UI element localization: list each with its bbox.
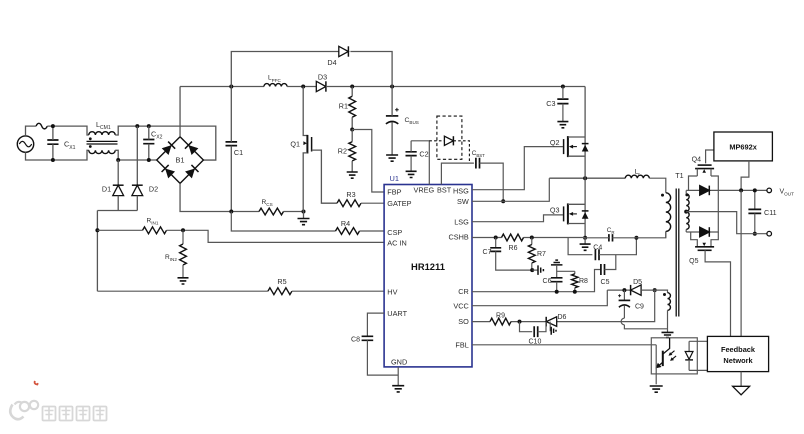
label C10: [529, 338, 542, 345]
svg-text:R8: R8: [579, 278, 588, 285]
label Q5: [689, 258, 698, 265]
node Q1 drain tap: [301, 85, 305, 89]
wire SW rail: [549, 177, 625, 179]
wire secondary bottom line: [686, 190, 718, 232]
wire secondary bottom lead: [685, 229, 687, 232]
signal ground triangle: [733, 386, 750, 395]
svg-text:Network: Network: [723, 356, 753, 365]
label RIN2: [165, 254, 177, 262]
capacitor C7: [490, 238, 532, 271]
node C11 bottom: [753, 232, 757, 236]
choke core: [87, 141, 118, 144]
svg-text:FBP: FBP: [387, 188, 401, 197]
svg-text:HV: HV: [387, 288, 397, 297]
label C8: [351, 337, 360, 344]
svg-text:LSG: LSG: [454, 217, 469, 226]
label R9: [496, 312, 505, 319]
capacitor C8: [362, 336, 374, 340]
wire led to feedback box: [689, 341, 707, 370]
diode D4: [339, 46, 349, 56]
label C6: [543, 278, 552, 285]
optocoupler box: [651, 338, 697, 374]
label C3: [546, 99, 555, 108]
svg-text:D6: D6: [558, 314, 567, 321]
capacitor C5: [601, 255, 616, 275]
sideways ground at D6: [550, 322, 556, 335]
node R1 R2 junction: [350, 128, 354, 132]
node Q3 source: [583, 236, 587, 240]
wire bridge bottom to return rail: [180, 183, 259, 211]
inverted ground above C6: [551, 260, 563, 265]
transistor Q4: [689, 150, 719, 190]
inductor LPFC: [264, 84, 287, 87]
resistor RIN2: [180, 230, 187, 277]
label Cx2: [151, 129, 163, 140]
node cx1 bottom: [51, 158, 55, 162]
node R7 bottom: [530, 268, 534, 272]
diode D1: [113, 160, 124, 211]
label Q4: [692, 157, 701, 164]
label R3: [346, 190, 355, 199]
capacitor CX1: [47, 126, 58, 160]
capacitor C10: [520, 322, 547, 338]
wire LSG to Q3 gate: [472, 215, 563, 222]
svg-text:R4: R4: [341, 219, 350, 228]
wire fuse to choke top: [47, 126, 89, 135]
node C11 top: [753, 188, 757, 192]
transformer T1 secondary bottom winding: [686, 212, 689, 230]
optocoupler led: [685, 341, 693, 370]
svg-text:FBL: FBL: [455, 341, 468, 350]
wire BST riser: [441, 163, 474, 184]
svg-text:D3: D3: [318, 73, 327, 82]
svg-text:R2: R2: [338, 146, 347, 155]
resistor RIN1: [97, 227, 384, 243]
mpm MP692x box: [714, 132, 773, 161]
wire CR node to transformer primary: [636, 231, 665, 237]
svg-text:GATEP: GATEP: [387, 199, 411, 208]
ground at Q1 source: [298, 212, 310, 225]
wire C6 to R8 top: [557, 270, 575, 272]
wire ac source top to fuse: [26, 126, 37, 136]
node center tap: [684, 210, 688, 214]
capacitor C2: [406, 141, 417, 171]
transistor Q3: [564, 203, 589, 224]
node C9 top: [622, 288, 626, 292]
node cx1 top: [51, 124, 55, 128]
wire C8 to GND pin: [367, 340, 398, 375]
svg-text:R5: R5: [277, 277, 286, 286]
wire ac source bottom: [26, 150, 89, 160]
label CBST: [472, 150, 485, 158]
wire bridge top to PFC rail: [179, 87, 181, 137]
label D6: [558, 314, 567, 321]
svg-text:BST: BST: [437, 186, 452, 195]
svg-text:D1: D1: [102, 185, 111, 194]
terminal VOUT positive: [767, 188, 772, 193]
wire D4 branch: [231, 52, 392, 87]
bootstrap diode (optional): [444, 136, 453, 145]
pin label GND: [391, 357, 407, 366]
svg-text:C7: C7: [483, 249, 492, 256]
svg-text:R7: R7: [537, 251, 546, 258]
wire Lr to primary: [649, 178, 666, 193]
dashed lead left of bootstrap diode: [429, 140, 444, 142]
svg-text:C2: C2: [419, 150, 428, 159]
label R5: [277, 277, 286, 286]
svg-text:R9: R9: [496, 312, 505, 319]
wire secondary top lead: [685, 190, 687, 193]
hop over SO line on C9 return: [621, 318, 624, 325]
node Q1 source: [302, 210, 306, 214]
label D5: [633, 279, 642, 286]
label MP692x: [729, 143, 757, 152]
svg-text:UART: UART: [387, 309, 407, 318]
svg-text:Q4: Q4: [692, 157, 701, 164]
capacitor C9: [618, 290, 630, 318]
ac source V_AC: [17, 136, 33, 152]
node C1 bottom: [229, 210, 233, 214]
wire SW pin: [472, 178, 549, 201]
resistor R7: [528, 238, 535, 271]
label R6: [509, 245, 518, 252]
capacitor CX2: [143, 126, 154, 160]
wire PFC rail segment2: [287, 86, 316, 88]
label C1: [234, 148, 243, 157]
wire D1 D2 anode join: [97, 210, 137, 212]
node SW: [583, 176, 587, 180]
label LCM1: [96, 120, 111, 131]
node R7 top: [530, 236, 534, 240]
svg-text:MP692x: MP692x: [729, 143, 757, 152]
pin label VREG: [414, 186, 435, 195]
wire C4 branch: [568, 238, 592, 255]
node C3 top: [561, 85, 565, 89]
wire feedback box to signal ground: [740, 372, 742, 387]
capacitor C6: [551, 265, 563, 292]
label RIN1: [147, 217, 159, 225]
wire primary bottom: [665, 231, 667, 237]
wire C9 return to aux ground: [624, 325, 667, 329]
ground at Q3 source: [580, 238, 591, 251]
inductor Lr: [625, 175, 649, 178]
svg-text:Q5: Q5: [689, 258, 698, 265]
wire PFC rail segment3: [326, 86, 585, 88]
resistor R8: [572, 271, 578, 291]
label D1: [102, 185, 111, 194]
svg-text:C11: C11: [764, 208, 777, 217]
capacitor CBUS: [386, 87, 399, 155]
node CX2 bottom: [147, 158, 151, 162]
node C10 tap: [518, 320, 522, 324]
svg-text:C3: C3: [546, 99, 555, 108]
fuse F1: [36, 123, 47, 129]
svg-text:HSG: HSG: [453, 186, 469, 195]
wire MP692x to VOUT rail: [741, 161, 749, 191]
node SO riser top: [653, 288, 657, 292]
label R8: [579, 278, 588, 285]
capacitor C3: [557, 87, 568, 122]
label C9: [635, 304, 644, 311]
wire CSP branch: [231, 212, 335, 232]
bridge rectifier B1 body: [157, 137, 204, 184]
label C11: [764, 208, 777, 217]
label B1: [175, 156, 184, 165]
wire VREG riser: [411, 141, 429, 185]
ground at GND pin: [392, 386, 404, 392]
ground aux winding: [662, 332, 674, 337]
svg-text:C1: C1: [234, 148, 243, 157]
wire PFC rail segment1: [180, 86, 264, 88]
common-mode choke LCM1 top winding: [89, 132, 115, 135]
label Lr: [635, 169, 641, 177]
transformer T1 aux winding: [641, 290, 670, 332]
label VOUT: [780, 189, 795, 197]
node R1 top: [350, 85, 354, 89]
label LPFC: [268, 75, 282, 83]
node C1 top: [229, 85, 233, 89]
bridge diode bottom-left: [162, 165, 175, 178]
svg-text:T1: T1: [675, 171, 683, 180]
resistor R6: [502, 234, 524, 241]
resistor R2: [349, 130, 356, 173]
dashed optional bootstrap diode box: [437, 116, 462, 159]
op-amp U1 HR1211 body: [384, 185, 472, 367]
node FB riser top: [739, 188, 743, 192]
wire center tap to return terminal: [686, 212, 767, 234]
node D2 tap on AC rail: [135, 124, 139, 128]
label R2: [338, 146, 347, 155]
node RIN1 tap: [95, 228, 99, 232]
svg-text:VCC: VCC: [453, 302, 468, 311]
optocoupler phototransistor: [655, 338, 669, 369]
ground under RIN2: [178, 278, 189, 284]
node CBST SW junction: [501, 199, 505, 203]
capacitor C11: [748, 190, 761, 233]
common-mode choke LCM1 bottom winding: [89, 150, 115, 153]
transformer T1 secondary top winding: [686, 194, 689, 212]
wire HSG to Q2 gate: [472, 147, 563, 190]
node R8 bottom: [573, 290, 577, 294]
wire FB riser: [740, 190, 742, 336]
pin labels left: [387, 188, 411, 318]
wire UART to C8: [367, 313, 384, 336]
label CBUS: [405, 117, 419, 125]
svg-text:U1: U1: [390, 174, 399, 183]
svg-text:D4: D4: [327, 58, 336, 67]
resistor R9: [490, 318, 511, 325]
svg-text:CSHB: CSHB: [449, 232, 469, 241]
node CX2 top: [147, 124, 151, 128]
svg-text:R1: R1: [339, 101, 348, 110]
transistor Q2: [564, 136, 589, 157]
choke polarity dots: [89, 137, 92, 148]
wire FBL line: [472, 344, 656, 346]
bridge diode top-right: [185, 142, 198, 155]
transformer T1 primary winding: [666, 193, 671, 232]
capacitor CR: [585, 234, 636, 241]
diode D2: [132, 126, 143, 210]
wire CR line: [472, 270, 601, 292]
node D1 tap: [116, 158, 120, 162]
ground under C3: [557, 122, 568, 128]
optocoupler light arrows: [669, 351, 677, 361]
resistor R4: [336, 228, 385, 235]
ground under C2: [406, 171, 417, 177]
wire choke bottom out: [115, 150, 157, 160]
diode D5: [631, 285, 642, 295]
svg-text:SO: SO: [458, 317, 469, 326]
aux polarity dot: [663, 293, 666, 296]
node C7 top: [494, 236, 498, 240]
label Q1: [290, 140, 300, 149]
svg-text:C4: C4: [593, 244, 602, 251]
label C2: [419, 150, 428, 159]
label R1: [339, 101, 348, 110]
node CBUS top: [390, 85, 394, 89]
resistor R1: [349, 87, 356, 130]
node C4 right: [634, 236, 638, 240]
wire RCS to Q1 source node: [284, 211, 304, 213]
label D3: [318, 73, 327, 82]
bridge diode top-left: [162, 142, 175, 155]
pin labels right: [449, 186, 470, 349]
label HR1211: [411, 261, 445, 272]
svg-text:Q3: Q3: [550, 206, 560, 215]
svg-text:HR1211: HR1211: [411, 261, 445, 272]
svg-text:CSP: CSP: [387, 228, 402, 237]
wire secondary top line: [686, 189, 767, 191]
node RIN2 tap: [181, 228, 185, 232]
wire SO line: [472, 290, 655, 322]
label C4: [593, 244, 602, 251]
svg-text:GND: GND: [391, 357, 407, 366]
svg-text:D5: D5: [633, 279, 642, 286]
svg-text:R3: R3: [346, 190, 355, 199]
transformer T1 core: [676, 189, 679, 317]
dashed lead right of bootstrap diode: [453, 141, 469, 163]
diode D3: [316, 81, 326, 91]
diode D6: [546, 317, 557, 327]
ground under optocoupler: [650, 386, 663, 392]
diode secondary bottom: [700, 227, 710, 237]
node C6 bottom: [555, 290, 559, 294]
resistor R5: [97, 288, 384, 295]
ground under R2: [347, 172, 358, 178]
transistor Q5: [691, 232, 731, 336]
svg-text:B1: B1: [175, 156, 184, 165]
svg-text:SW: SW: [457, 197, 469, 206]
label R7: [537, 251, 546, 258]
label Cx1: [64, 140, 76, 151]
label Q2: [550, 138, 560, 147]
svg-text:R6: R6: [509, 245, 518, 252]
wire VCC to D5: [607, 289, 630, 291]
watermark logo: [10, 401, 38, 419]
label D2: [149, 185, 158, 194]
pin label BST: [437, 186, 452, 195]
label T1: [675, 171, 683, 180]
svg-text:C9: C9: [635, 304, 644, 311]
sideways ground at R7 bottom: [533, 265, 544, 275]
feedback network box: [707, 336, 768, 371]
red mark: [35, 381, 38, 385]
ground under CBUS: [386, 155, 398, 161]
primary polarity dot: [661, 194, 664, 197]
transistor Q1: [303, 87, 337, 212]
label D4: [327, 58, 336, 67]
svg-text:C6: C6: [543, 278, 552, 285]
svg-text:C5: C5: [601, 279, 610, 286]
label C5: [601, 279, 610, 286]
svg-text:AC IN: AC IN: [387, 239, 406, 248]
wire CBST to SW: [480, 163, 504, 201]
capacitor CBST: [476, 158, 480, 169]
label C7: [483, 249, 492, 256]
diode secondary top: [700, 186, 710, 196]
terminal VOUT return: [767, 231, 772, 236]
wire FBP link: [352, 130, 384, 193]
resistor R3: [337, 200, 384, 207]
svg-text:Feedback: Feedback: [721, 345, 756, 354]
capacitor C1: [226, 87, 238, 212]
wire choke top out / AC rail: [115, 126, 216, 160]
label Q3: [550, 206, 560, 215]
bridge diode bottom-right: [185, 165, 198, 178]
secondary polarity dot: [685, 193, 688, 196]
watermark text: [43, 407, 107, 421]
resistor RCS: [259, 208, 284, 215]
svg-text:VREG: VREG: [414, 186, 435, 195]
svg-text:C8: C8: [351, 337, 360, 344]
wire VCC line: [472, 290, 607, 306]
label Feedback Network: [721, 345, 756, 365]
label U1: [390, 174, 399, 183]
label R4: [341, 219, 350, 228]
label CR: [607, 227, 615, 235]
half-bridge rail: [584, 87, 586, 238]
capacitor C4: [595, 238, 636, 260]
svg-text:D2: D2: [149, 185, 158, 194]
label RCS: [262, 199, 273, 207]
wire CSHB line: [472, 237, 585, 239]
wire HV drop: [96, 211, 98, 292]
svg-text:C10: C10: [529, 338, 542, 345]
svg-text:Q2: Q2: [550, 138, 560, 147]
svg-text:CR: CR: [458, 287, 469, 296]
svg-text:Q1: Q1: [290, 140, 300, 149]
wire GND pin: [397, 367, 399, 386]
wire FBL into opto emitter: [655, 345, 657, 385]
